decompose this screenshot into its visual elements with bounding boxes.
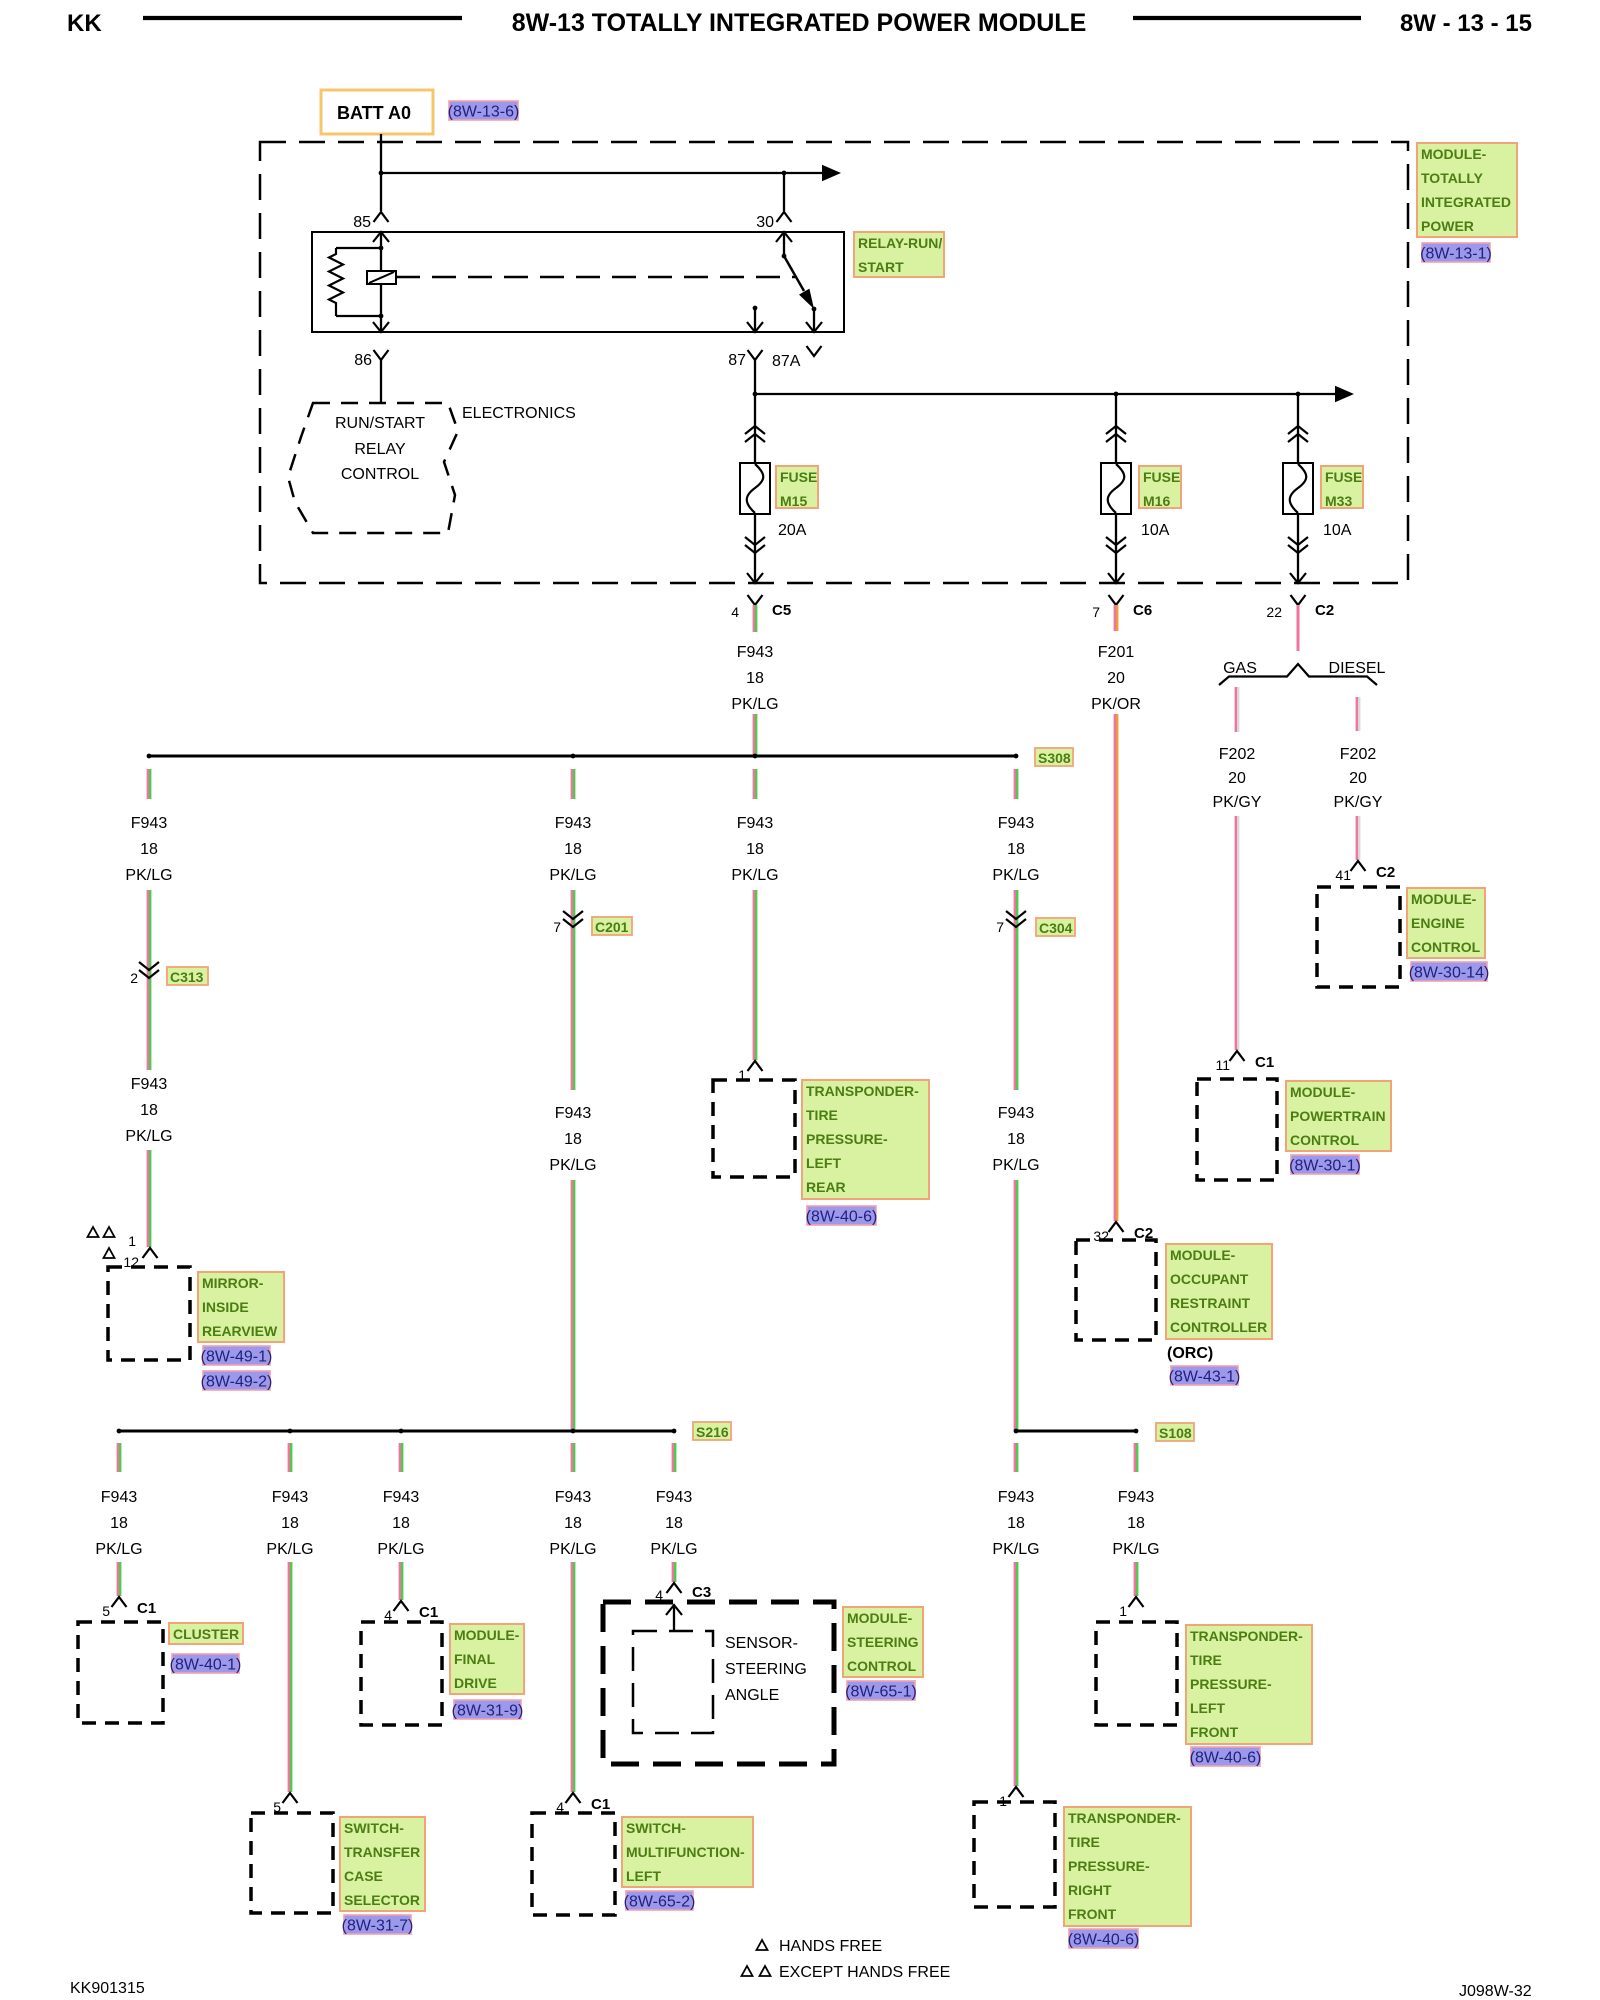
svg-text:C1: C1	[591, 1796, 610, 1813]
reference (8W-13-6)	[448, 101, 520, 121]
svg-text:C1: C1	[1255, 1054, 1274, 1071]
fuse M33	[1283, 463, 1313, 514]
svg-text:(8W-13-1): (8W-13-1)	[1420, 246, 1492, 263]
connector powertrain 11 C1	[1215, 1051, 1274, 1073]
svg-text:PK/LG: PK/LG	[125, 1128, 172, 1145]
svg-text:INTEGRATED: INTEGRATED	[1421, 194, 1511, 210]
svg-text:18: 18	[564, 841, 582, 858]
svg-text:10A: 10A	[1141, 522, 1170, 539]
svg-text:INSIDE: INSIDE	[202, 1299, 249, 1315]
junction dot	[782, 171, 787, 176]
wire below fuse M15	[754, 514, 756, 582]
svg-text:REARVIEW: REARVIEW	[202, 1323, 278, 1339]
svg-text:8W - 13 - 15: 8W - 13 - 15	[1400, 10, 1532, 37]
svg-text:F201: F201	[1098, 644, 1135, 661]
label TRANSPONDER-TIRE PRESSURE-LEFT FRONT	[1186, 1625, 1312, 1744]
label MODULE-TOTALLY INTEGRATED POWER	[1417, 143, 1517, 237]
svg-text:SENSOR-: SENSOR-	[725, 1635, 798, 1652]
svg-text:STEERING: STEERING	[725, 1661, 807, 1678]
wire F202 gas run	[1235, 816, 1237, 1050]
wire F943 col A upper	[147, 890, 149, 1070]
svg-text:M33: M33	[1325, 493, 1352, 509]
tag C304	[1036, 918, 1075, 936]
svg-text:FUSE: FUSE	[1143, 469, 1180, 485]
svg-text:S308: S308	[1038, 750, 1071, 766]
connector arrow at TIPM edge M33	[1290, 573, 1306, 583]
svg-text:CONTROL: CONTROL	[847, 1658, 917, 1674]
wire col D upper	[571, 890, 573, 1090]
svg-text:7: 7	[1092, 604, 1100, 620]
connector steering sensor 4 C3	[655, 1583, 711, 1603]
connector C2 pin 22	[1266, 595, 1334, 620]
svg-text:PK/LG: PK/LG	[992, 867, 1039, 884]
wire F943 stub below S216 x=119	[117, 1443, 119, 1472]
svg-text:F943: F943	[737, 815, 774, 832]
svg-text:TIRE: TIRE	[1190, 1652, 1222, 1668]
wire col G to S108	[1014, 1180, 1016, 1431]
label MODULE-ENGINE CONTROL	[1407, 888, 1485, 958]
svg-text:5: 5	[102, 1603, 110, 1619]
svg-text:10A: 10A	[1323, 522, 1352, 539]
svg-text:GAS: GAS	[1223, 660, 1257, 677]
svg-text:18: 18	[392, 1515, 410, 1532]
connector C304	[996, 911, 1026, 935]
svg-text:MODULE-: MODULE-	[1170, 1247, 1236, 1263]
wire F943 col A to mirror	[147, 1150, 149, 1247]
label FUSE M33	[1321, 466, 1363, 509]
label TRANSPONDER-TIRE PRESSURE-RIGHT FRONT	[1064, 1807, 1191, 1926]
reference (8W-65-1)	[845, 1681, 917, 1701]
svg-text:F943: F943	[998, 815, 1035, 832]
wire to left front transponder	[1134, 1562, 1136, 1596]
svg-text:PK/LG: PK/LG	[549, 867, 596, 884]
svg-text:C3: C3	[692, 1584, 711, 1601]
text SENSOR-STEERING ANGLE	[725, 1635, 807, 1704]
svg-text:18: 18	[665, 1515, 683, 1532]
svg-text:F202: F202	[1219, 746, 1256, 763]
svg-text:18: 18	[746, 841, 764, 858]
legend hands free	[757, 1938, 883, 1955]
svg-text:MODULE-: MODULE-	[454, 1627, 520, 1643]
svg-text:BATT A0: BATT A0	[337, 103, 411, 123]
reference (8W-49-1)	[201, 1346, 273, 1366]
wire F943 stub below S108 x=1016	[1014, 1443, 1016, 1472]
module box MODULE-ENGINE CONTROL	[1317, 887, 1400, 987]
label SWITCH-TRANSFER CASE SELECTOR	[340, 1817, 425, 1911]
wire F202 diesel run	[1356, 816, 1358, 860]
svg-text:MULTIFUNCTION-: MULTIFUNCTION-	[626, 1844, 745, 1860]
pin 87A connector	[772, 322, 822, 370]
svg-text:F202: F202	[1340, 746, 1377, 763]
svg-text:STEERING: STEERING	[847, 1634, 919, 1650]
module boundary TIPM	[260, 142, 1408, 583]
reference (8W-40-6)	[1068, 1929, 1140, 1949]
wire 87 feed	[753, 360, 1354, 402]
connector chevrons above fuse M33	[1288, 426, 1308, 442]
connector final drive 4 C1	[384, 1601, 438, 1623]
tag C313	[167, 967, 208, 985]
svg-text:F943: F943	[998, 1105, 1035, 1122]
svg-text:18: 18	[1007, 1515, 1025, 1532]
relay control dashed link	[396, 276, 795, 279]
wire to multifunction switch	[571, 1562, 573, 1792]
wire col G upper	[1014, 890, 1016, 1090]
svg-text:PK/LG: PK/LG	[1112, 1541, 1159, 1558]
svg-text:PK/OR: PK/OR	[1091, 696, 1141, 713]
label MODULE-POWERTRAIN CONTROL	[1286, 1081, 1391, 1151]
reference (8W-65-2)	[624, 1891, 696, 1911]
svg-text:RESTRAINT: RESTRAINT	[1170, 1295, 1251, 1311]
svg-text:FUSE: FUSE	[780, 469, 817, 485]
header rule right	[1133, 16, 1361, 20]
wire F943 to S308	[753, 714, 755, 756]
module box MIRROR-INSIDE REARVIEW	[108, 1267, 190, 1360]
label TRANSPONDER-TIRE PRESSURE-LEFT REAR	[802, 1080, 929, 1199]
connector left front transponder pin 1	[1119, 1597, 1143, 1619]
svg-text:(ORC): (ORC)	[1167, 1345, 1213, 1362]
svg-text:RELAY: RELAY	[354, 441, 406, 458]
svg-text:F943: F943	[1118, 1489, 1155, 1506]
wire F202 gas stub	[1235, 687, 1237, 732]
svg-text:MODULE-: MODULE-	[847, 1610, 913, 1626]
reference (8W-30-14)	[1409, 962, 1490, 982]
brace GAS/DIESEL split	[1219, 664, 1377, 685]
svg-text:(8W-49-2): (8W-49-2)	[201, 1374, 273, 1391]
svg-text:CONTROL: CONTROL	[1290, 1132, 1360, 1148]
svg-text:FRONT: FRONT	[1190, 1724, 1239, 1740]
reference (8W-13-1)	[1420, 243, 1492, 263]
svg-text:18: 18	[140, 1102, 158, 1119]
svg-text:18: 18	[564, 1515, 582, 1532]
svg-text:REAR: REAR	[806, 1179, 846, 1195]
svg-text:S216: S216	[696, 1424, 729, 1440]
svg-text:M15: M15	[780, 493, 807, 509]
connector C201	[553, 911, 583, 935]
wire pin 86 to relay control	[380, 360, 382, 402]
connector arrow into sensor	[666, 1605, 682, 1631]
legend except hands free	[742, 1964, 951, 1981]
svg-text:PK/LG: PK/LG	[377, 1541, 424, 1558]
svg-text:41: 41	[1335, 867, 1351, 883]
svg-text:PRESSURE-: PRESSURE-	[806, 1131, 888, 1147]
wire battery feed horizontal	[381, 172, 824, 174]
svg-text:RELAY-RUN/: RELAY-RUN/	[858, 235, 942, 251]
svg-text:CONTROL: CONTROL	[1411, 939, 1481, 955]
connector chevrons below fuse M33	[1288, 537, 1308, 553]
relay switch	[753, 232, 817, 331]
svg-text:MODULE-: MODULE-	[1411, 891, 1477, 907]
svg-text:ENGINE: ENGINE	[1411, 915, 1465, 931]
svg-text:TOTALLY: TOTALLY	[1421, 170, 1484, 186]
svg-text:PK/LG: PK/LG	[95, 1541, 142, 1558]
svg-text:PK/LG: PK/LG	[992, 1157, 1039, 1174]
label MODULE-FINAL DRIVE	[450, 1624, 524, 1694]
svg-text:(8W-40-6): (8W-40-6)	[1190, 1750, 1262, 1767]
svg-text:POWER: POWER	[1421, 218, 1474, 234]
svg-text:18: 18	[1007, 1131, 1025, 1148]
label SWITCH-MULTIFUNCTION-LEFT	[622, 1817, 753, 1887]
svg-text:1: 1	[128, 1233, 136, 1249]
svg-text:7: 7	[553, 919, 561, 935]
wire to final drive module	[399, 1562, 401, 1600]
svg-text:LEFT: LEFT	[806, 1155, 841, 1171]
connector chevrons below fuse M16	[1106, 537, 1126, 553]
svg-text:(8W-40-1): (8W-40-1)	[170, 1657, 242, 1674]
wire F943 stub below S216 x=674	[672, 1443, 674, 1472]
svg-text:MIRROR-: MIRROR-	[202, 1275, 264, 1291]
svg-text:KK: KK	[67, 10, 102, 37]
relay RELAY-RUN/START box	[312, 232, 844, 332]
label MIRROR-INSIDE REARVIEW	[198, 1272, 284, 1342]
module box SENSOR-STEERING ANGLE	[633, 1631, 713, 1733]
svg-text:DRIVE: DRIVE	[454, 1675, 497, 1691]
wire col F to transponder	[753, 890, 755, 1060]
wire from C2	[1297, 605, 1300, 651]
connector chevrons above fuse M15	[745, 426, 765, 442]
connector transponder left rear pin 1	[738, 1061, 762, 1083]
svg-text:ANGLE: ANGLE	[725, 1687, 779, 1704]
label FUSE M15	[776, 466, 818, 509]
svg-text:F943: F943	[383, 1489, 420, 1506]
connector C313	[130, 962, 159, 986]
svg-text:PK/LG: PK/LG	[731, 867, 778, 884]
svg-text:2: 2	[130, 970, 138, 986]
svg-text:LEFT: LEFT	[626, 1868, 661, 1884]
svg-text:(8W-31-9): (8W-31-9)	[452, 1703, 524, 1720]
wire battery feed vertical	[380, 134, 382, 211]
tag S308	[1035, 748, 1073, 766]
module box TRANSPONDER-TIRE PRESSURE-LEFT REAR	[713, 1080, 795, 1177]
tag C201	[592, 917, 632, 935]
svg-text:18: 18	[281, 1515, 299, 1532]
svg-text:(8W-31-7): (8W-31-7)	[342, 1918, 414, 1935]
assembly boundary steering column	[603, 1602, 834, 1764]
svg-text:SWITCH-: SWITCH-	[344, 1820, 404, 1836]
svg-text:FRONT: FRONT	[1068, 1906, 1117, 1922]
svg-text:PK/LG: PK/LG	[125, 867, 172, 884]
svg-text:C201: C201	[595, 919, 629, 935]
svg-text:F943: F943	[998, 1489, 1035, 1506]
svg-text:S108: S108	[1159, 1425, 1192, 1441]
svg-text:20: 20	[1228, 770, 1246, 787]
svg-text:18: 18	[564, 1131, 582, 1148]
svg-text:RUN/START: RUN/START	[335, 415, 425, 432]
wire col D to S216	[571, 1180, 573, 1431]
connector C5 pin 4	[731, 595, 791, 620]
module box MODULE-FINAL DRIVE	[361, 1622, 442, 1725]
svg-text:18: 18	[110, 1515, 128, 1532]
header rule left	[143, 16, 462, 20]
svg-text:86: 86	[354, 352, 372, 369]
label MODULE-OCCUPANT RESTRAINT CONTROLLER	[1166, 1244, 1272, 1339]
wire F943 from C5	[753, 605, 755, 632]
module box MODULE-OCCUPANT RESTRAINT CONTROLLER	[1076, 1240, 1156, 1340]
reference (8W-40-1)	[170, 1654, 242, 1674]
wire F943 stub below S216 x=290	[288, 1443, 290, 1472]
connector chevrons above fuse M16	[1106, 426, 1126, 442]
label FUSE M16	[1139, 466, 1181, 509]
svg-text:85: 85	[353, 214, 371, 231]
svg-text:DIESEL: DIESEL	[1329, 660, 1386, 677]
reference (8W-40-6)	[806, 1206, 878, 1226]
module box CLUSTER	[78, 1622, 163, 1723]
wire to right front transponder	[1014, 1562, 1016, 1786]
svg-text:F943: F943	[555, 1489, 592, 1506]
module box MODULE-POWERTRAIN CONTROL	[1197, 1079, 1277, 1180]
svg-text:MODULE-: MODULE-	[1421, 146, 1487, 162]
svg-text:18: 18	[746, 670, 764, 687]
reference (8W-31-7)	[342, 1915, 414, 1935]
fuse M15	[740, 463, 770, 514]
svg-text:(8W-65-1): (8W-65-1)	[845, 1684, 917, 1701]
splice S308 bus	[147, 754, 1019, 759]
svg-text:20: 20	[1349, 770, 1367, 787]
svg-text:C6: C6	[1133, 602, 1152, 619]
reference (8W-43-1)	[1169, 1366, 1241, 1386]
svg-text:PK/LG: PK/LG	[731, 696, 778, 713]
pin 30 connector	[756, 212, 792, 242]
svg-text:PK/GY: PK/GY	[1213, 794, 1262, 811]
svg-text:TIRE: TIRE	[1068, 1834, 1100, 1850]
svg-text:C2: C2	[1315, 602, 1334, 619]
svg-text:CASE: CASE	[344, 1868, 383, 1884]
connector multifunction 4 C1	[556, 1793, 610, 1815]
wire to steering angle sensor	[672, 1562, 674, 1582]
legend triangles at mirror pins	[88, 1227, 115, 1258]
svg-text:POWERTRAIN: POWERTRAIN	[1290, 1108, 1386, 1124]
connector mirror pins 1/12	[123, 1233, 157, 1270]
reference (8W-31-9)	[452, 1700, 524, 1720]
svg-text:11: 11	[1215, 1057, 1230, 1073]
connector arrow at TIPM edge M15	[747, 573, 763, 583]
wire F943 stub col A	[147, 769, 149, 799]
svg-text:8W-13 TOTALLY INTEGRATED POWER: 8W-13 TOTALLY INTEGRATED POWER MODULE	[512, 9, 1087, 37]
wire below fuse M16	[1115, 514, 1117, 582]
wire F943 stub col F	[753, 769, 755, 799]
svg-text:FINAL: FINAL	[454, 1651, 496, 1667]
svg-text:J098W-32: J098W-32	[1459, 1983, 1532, 2000]
svg-text:(8W-49-1): (8W-49-1)	[201, 1349, 273, 1366]
module box SWITCH-MULTIFUNCTION-LEFT	[532, 1813, 615, 1915]
splice S216 bus	[117, 1429, 677, 1434]
wire F201 long run	[1114, 714, 1116, 1221]
connector C6 pin 7	[1092, 595, 1152, 620]
svg-text:87: 87	[728, 352, 746, 369]
svg-text:(8W-65-2): (8W-65-2)	[624, 1894, 696, 1911]
pin 85 connector	[353, 212, 389, 242]
svg-text:PK/LG: PK/LG	[549, 1157, 596, 1174]
svg-text:C1: C1	[419, 1604, 438, 1621]
label MODULE-STEERING CONTROL	[843, 1607, 923, 1677]
svg-text:C2: C2	[1376, 864, 1395, 881]
svg-text:TRANSPONDER-: TRANSPONDER-	[1068, 1810, 1181, 1826]
svg-text:RIGHT: RIGHT	[1068, 1882, 1112, 1898]
svg-text:87A: 87A	[772, 353, 801, 370]
svg-text:PK/LG: PK/LG	[992, 1541, 1039, 1558]
connector right front transponder pin 1	[999, 1787, 1023, 1809]
label RELAY-RUN/START	[854, 232, 944, 277]
svg-text:SELECTOR: SELECTOR	[344, 1892, 420, 1908]
wire F943 stub col G	[1014, 769, 1016, 799]
junction dot	[379, 171, 384, 176]
module box SWITCH-TRANSFER CASE SELECTOR	[251, 1813, 333, 1913]
svg-text:TRANSPONDER-: TRANSPONDER-	[806, 1083, 919, 1099]
svg-text:CONTROLLER: CONTROLLER	[1170, 1319, 1267, 1335]
node BATT A0	[321, 90, 433, 134]
label CLUSTER	[169, 1623, 243, 1644]
svg-text:(8W-40-6): (8W-40-6)	[806, 1209, 878, 1226]
connector engine control 41 C2	[1335, 861, 1395, 883]
svg-text:4: 4	[731, 604, 739, 620]
connector arrow at TIPM edge M16	[1108, 573, 1124, 583]
relay coil	[329, 232, 396, 331]
connector chevrons below fuse M15	[745, 537, 765, 553]
svg-text:(8W-40-6): (8W-40-6)	[1068, 1932, 1140, 1949]
svg-text:(8W-30-14): (8W-30-14)	[1409, 965, 1490, 982]
wire branch to pin 30	[783, 173, 785, 211]
svg-text:(8W-13-6): (8W-13-6)	[448, 104, 520, 121]
wire F943 stub col D	[571, 769, 573, 799]
svg-text:M16: M16	[1143, 493, 1170, 509]
svg-text:PRESSURE-: PRESSURE-	[1190, 1676, 1272, 1692]
svg-text:KK901315: KK901315	[70, 1980, 145, 1997]
wire F943 stub below S108 x=1136	[1134, 1443, 1136, 1472]
tag S216	[693, 1422, 731, 1440]
connector ORC 32 C2	[1093, 1222, 1153, 1244]
svg-text:F943: F943	[555, 1105, 592, 1122]
wire to fuse M33	[1297, 394, 1299, 463]
tag S108	[1156, 1423, 1194, 1441]
svg-text:PK/LG: PK/LG	[266, 1541, 313, 1558]
svg-text:(8W-43-1): (8W-43-1)	[1169, 1369, 1241, 1386]
wire F202 diesel stub	[1356, 697, 1358, 731]
svg-text:7: 7	[996, 919, 1004, 935]
svg-text:START: START	[858, 259, 904, 275]
svg-text:F943: F943	[737, 644, 774, 661]
svg-text:MODULE-: MODULE-	[1290, 1084, 1356, 1100]
svg-text:F943: F943	[131, 815, 168, 832]
svg-text:PK/LG: PK/LG	[549, 1541, 596, 1558]
svg-text:20A: 20A	[778, 522, 807, 539]
svg-text:18: 18	[140, 841, 158, 858]
svg-text:CONTROL: CONTROL	[341, 466, 419, 483]
module box TRANSPONDER-TIRE PRESSURE-RIGHT FRONT	[974, 1802, 1055, 1907]
svg-text:OCCUPANT: OCCUPANT	[1170, 1271, 1249, 1287]
reference (8W-40-6)	[1190, 1747, 1262, 1767]
svg-text:TRANSFER: TRANSFER	[344, 1844, 420, 1860]
svg-text:TIRE: TIRE	[806, 1107, 838, 1123]
svg-text:1: 1	[1119, 1603, 1127, 1619]
pin 86 connector	[354, 322, 389, 369]
module box TRANSPONDER-TIRE PRESSURE-LEFT FRONT	[1096, 1622, 1177, 1725]
wire F201 from C6	[1114, 605, 1116, 631]
svg-text:PRESSURE-: PRESSURE-	[1068, 1858, 1150, 1874]
reference (8W-49-2)	[201, 1371, 273, 1391]
connector transfer case pin 5	[273, 1793, 297, 1815]
svg-text:20: 20	[1107, 670, 1125, 687]
svg-text:F943: F943	[272, 1489, 309, 1506]
wire below fuse M33	[1297, 514, 1299, 582]
wire to fuse M16	[1115, 394, 1117, 463]
svg-text:30: 30	[756, 214, 774, 231]
svg-text:C313: C313	[170, 969, 204, 985]
svg-text:18: 18	[1127, 1515, 1145, 1532]
wire to transfer case switch	[288, 1562, 290, 1792]
svg-text:TRANSPONDER-: TRANSPONDER-	[1190, 1628, 1303, 1644]
svg-text:C1: C1	[137, 1600, 156, 1617]
svg-text:ELECTRONICS: ELECTRONICS	[462, 405, 576, 422]
wire to cluster	[117, 1562, 119, 1596]
